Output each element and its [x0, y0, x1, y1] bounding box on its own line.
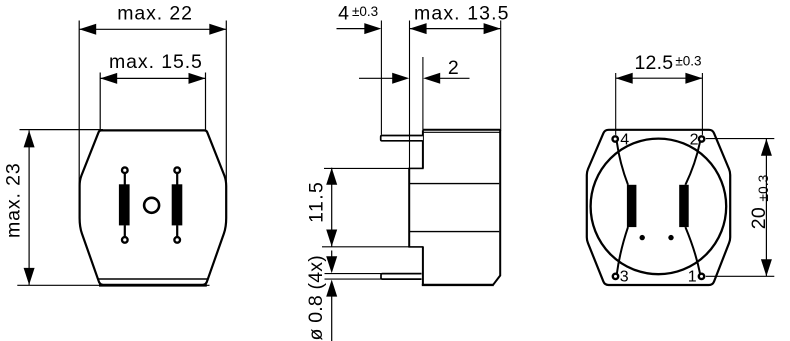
- dimension max. 13.5: [410, 2, 510, 128]
- pin ring top-right: [174, 167, 180, 173]
- side body lower flange top edge: [408, 246, 423, 248]
- svg-text:3: 3: [620, 269, 629, 286]
- front view base seam line: [98, 278, 207, 280]
- svg-text:11.5: 11.5: [306, 181, 328, 223]
- dot marker right: [668, 235, 673, 240]
- pin 4 ring: [613, 136, 618, 141]
- dimension 11.5: [306, 168, 410, 247]
- svg-text:12.5: 12.5: [635, 52, 674, 74]
- dimension 4 +-0.3: [337, 3, 382, 135]
- side body middle left edge: [408, 168, 410, 247]
- dimension 2: [359, 21, 470, 169]
- winding bar left (front): [119, 184, 130, 225]
- pin 3 ring: [613, 274, 618, 279]
- dimension 20 +-0.3: [706, 139, 775, 277]
- wire stem upper-left: [124, 174, 126, 185]
- pin 2 ring: [699, 136, 704, 141]
- svg-text:±0.3: ±0.3: [352, 4, 378, 19]
- svg-text:4: 4: [338, 3, 349, 25]
- top pin (side view): [381, 136, 423, 141]
- front view bottom edge: [99, 284, 207, 287]
- wire pin4 to winding: [617, 142, 628, 185]
- svg-text:1: 1: [688, 269, 697, 286]
- wire pin3 to winding: [617, 227, 628, 273]
- dot marker left: [640, 235, 645, 240]
- wire stem upper-right: [176, 174, 178, 185]
- bottom view plate outline: [587, 130, 730, 285]
- side body bottom edge: [422, 284, 494, 286]
- winding bar right (front): [172, 184, 183, 225]
- pin ring top-left: [122, 167, 128, 173]
- bottom pin (side view): [381, 274, 422, 280]
- side body right edge: [493, 130, 500, 285]
- svg-text:ø 0.8 (4x): ø 0.8 (4x): [305, 255, 327, 340]
- svg-text:±0.3: ±0.3: [675, 54, 701, 69]
- winding bar left (bottom view): [627, 185, 637, 227]
- side body lower flange left edge: [422, 247, 424, 285]
- svg-text:4: 4: [620, 131, 629, 148]
- dimension 12.5 +-0.3: [616, 52, 703, 135]
- side body upper flange bottom edge: [408, 167, 423, 169]
- wire stem lower-left: [124, 225, 126, 236]
- dimension max. 15.5: [100, 51, 205, 130]
- svg-text:2: 2: [690, 131, 699, 148]
- wire pin1 to winding: [685, 227, 700, 273]
- svg-text:max. 23: max. 23: [2, 162, 24, 238]
- svg-text:max. 22: max. 22: [117, 3, 193, 25]
- side body internal line upper: [410, 183, 499, 185]
- wire pin2 to winding: [685, 142, 700, 185]
- pin ring bottom-left: [122, 237, 128, 243]
- front view body outline: [80, 130, 227, 285]
- side body internal line lower: [410, 231, 499, 233]
- svg-text:max. 13.5: max. 13.5: [414, 2, 510, 24]
- side body top inner line: [424, 131, 500, 133]
- svg-text:max. 15.5: max. 15.5: [109, 51, 203, 73]
- winding bar right (bottom view): [679, 185, 689, 227]
- svg-text:2: 2: [448, 57, 459, 79]
- dimension max. 22: [79, 3, 226, 207]
- pin ring bottom-right: [174, 237, 180, 243]
- bottom view core circle: [591, 139, 727, 275]
- pin 1 ring: [699, 274, 704, 279]
- side body upper flange left edge: [422, 130, 424, 168]
- dimension max. 23: [2, 130, 209, 286]
- dimension dia 0.8 (4x): [305, 251, 381, 341]
- wire stem lower-right: [176, 225, 178, 236]
- center hole ring: [144, 198, 159, 213]
- side body top edge: [423, 129, 501, 131]
